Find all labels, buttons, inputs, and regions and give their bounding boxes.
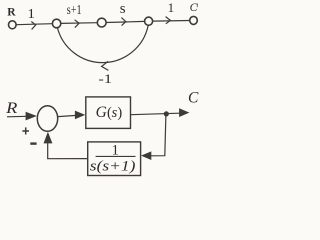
arrowhead into G block bbox=[75, 111, 85, 120]
svg-text:R: R bbox=[5, 100, 18, 117]
svg-text:): ) bbox=[117, 105, 122, 121]
wire takeoff down to feedback block bbox=[151, 115, 166, 156]
wire G block to output C bbox=[131, 113, 180, 115]
block G(s) bbox=[86, 97, 131, 128]
svg-text:s+1: s+1 bbox=[67, 3, 82, 18]
svg-text:C: C bbox=[188, 90, 199, 107]
node 2 bbox=[52, 19, 60, 28]
wire summing junction to G block bbox=[58, 115, 77, 116]
node R (input node of signal flow graph) bbox=[9, 21, 17, 29]
arrowhead on feedback arc bbox=[102, 61, 109, 70]
stray tick after C bbox=[196, 4, 198, 8]
node 3 bbox=[97, 18, 106, 27]
svg-text:-1: -1 bbox=[98, 72, 112, 86]
summing junction bbox=[37, 106, 57, 132]
svg-text:s(s+1): s(s+1) bbox=[90, 159, 136, 175]
svg-text:1: 1 bbox=[27, 7, 35, 22]
arrowhead into feedback block bbox=[141, 151, 151, 160]
wire branch node4 to node C bbox=[153, 20, 190, 23]
arrowhead on branch 4 bbox=[166, 17, 171, 24]
arrowhead up into summing junction bbox=[44, 132, 53, 144]
takeoff junction dot bbox=[164, 111, 169, 116]
wire branch node2 to node3 bbox=[61, 22, 98, 25]
wire branch R to node2 bbox=[16, 24, 52, 25]
arrowhead at output C bbox=[179, 108, 189, 117]
fraction bar bbox=[96, 155, 136, 157]
arrowhead on branch 2 bbox=[75, 20, 80, 28]
arrowhead on branch 1 bbox=[31, 22, 35, 30]
wire input R to summing junction bbox=[7, 115, 27, 118]
arrowhead into summing junction bbox=[26, 112, 37, 121]
feedback arc branch (-1) from node4 to node2 bbox=[57, 25, 148, 62]
arrowhead on branch 3 bbox=[121, 18, 125, 26]
sign - bbox=[30, 142, 36, 144]
sign + bbox=[22, 127, 29, 134]
node 4 bbox=[145, 17, 153, 25]
wire feedback block back to summing junction bbox=[48, 143, 88, 159]
svg-text:1: 1 bbox=[168, 0, 175, 15]
node C (output node) bbox=[190, 16, 198, 24]
feedback block 1/s(s+1) bbox=[88, 142, 141, 176]
svg-text:R: R bbox=[7, 7, 16, 19]
wire branch node3 to node4 bbox=[106, 21, 145, 22]
svg-text:G: G bbox=[96, 104, 107, 121]
svg-text:C: C bbox=[190, 2, 198, 14]
svg-text:s: s bbox=[120, 1, 126, 17]
